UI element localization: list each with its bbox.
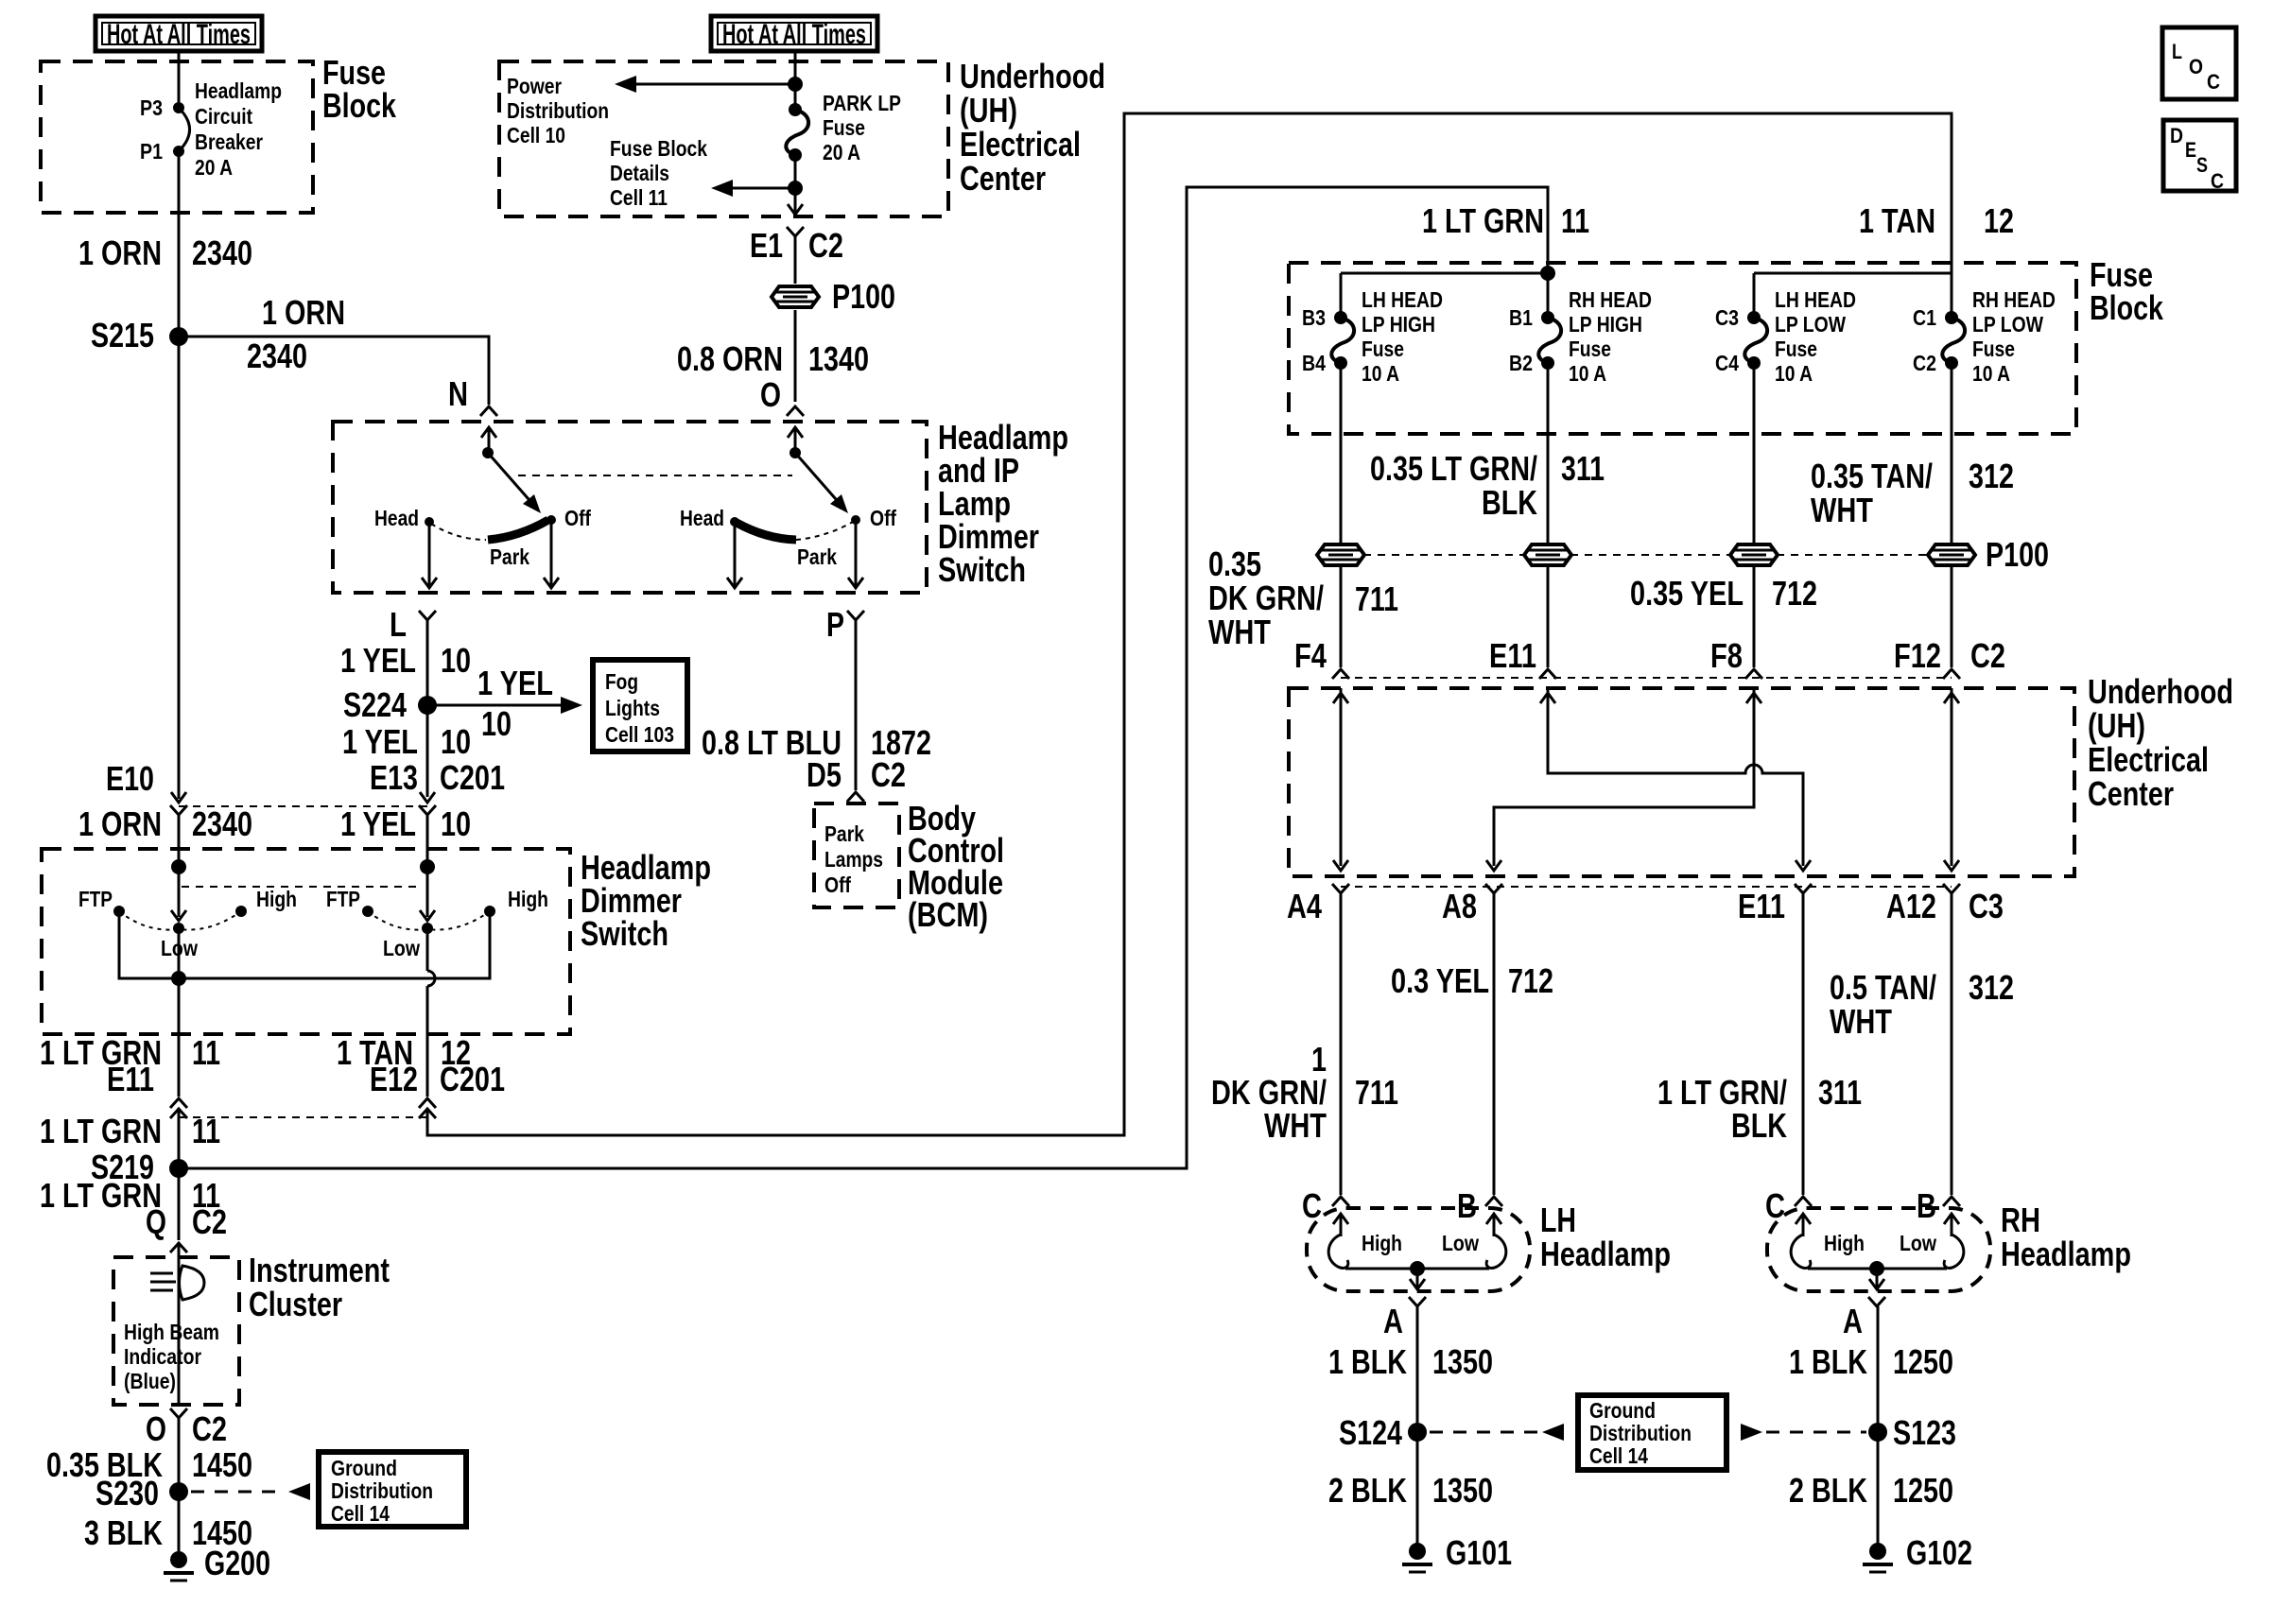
ground distribution reference box (right) <box>1578 1395 1726 1470</box>
svg-text:B: B <box>1917 1186 1936 1225</box>
svg-text:Cell 10: Cell 10 <box>507 123 565 147</box>
svg-text:20 A: 20 A <box>195 155 233 180</box>
svg-text:10: 10 <box>441 804 471 843</box>
svg-text:0.35 TAN/: 0.35 TAN/ <box>1811 457 1933 495</box>
wire down to B1 <box>1547 273 1550 318</box>
junction dot at fuse block details branch <box>788 181 803 196</box>
dimmer pole 2 terminal Low <box>422 923 433 934</box>
splice S219 <box>169 1159 188 1178</box>
tee wire to LH HEAD LP LOW fuse <box>1754 272 1952 275</box>
svg-text:1 LT GRN: 1 LT GRN <box>1422 201 1544 240</box>
svg-text:Cell 11: Cell 11 <box>610 185 668 210</box>
wire 1 YEL 10 from S224 to E13 <box>426 705 429 797</box>
svg-text:WHT: WHT <box>1830 1002 1892 1041</box>
svg-text:1 YEL: 1 YEL <box>340 641 416 680</box>
RH headlamp dashed outline <box>1767 1208 1990 1291</box>
svg-text:Circuit: Circuit <box>195 104 252 129</box>
svg-text:2340: 2340 <box>247 337 307 375</box>
svg-text:S123: S123 <box>1893 1413 1956 1452</box>
svg-text:High Beam: High Beam <box>124 1320 219 1344</box>
svg-text:12: 12 <box>1984 201 2014 240</box>
svg-text:1 LT GRN: 1 LT GRN <box>40 1112 162 1150</box>
fog lights reference box <box>593 660 687 752</box>
label Body Control Module (BCM) <box>908 799 1004 934</box>
svg-text:A: A <box>1383 1302 1403 1340</box>
label RH HEAD LP LOW Fuse 10 A <box>1972 287 2056 386</box>
svg-text:E12: E12 <box>370 1060 418 1098</box>
junction dot at power distribution branch <box>788 77 803 92</box>
UH wire E11-in to E11-out with hop over F8 <box>1548 688 1803 866</box>
svg-text:Fuse: Fuse <box>1775 337 1817 361</box>
svg-text:1 YEL: 1 YEL <box>477 664 553 702</box>
label RH HEAD LP HIGH Fuse 10 A <box>1569 287 1652 386</box>
dashed link S124 to ground distribution <box>1430 1431 1539 1434</box>
LOC legend box <box>2162 27 2236 99</box>
wire down to C1 <box>1951 273 1953 318</box>
svg-text:C201: C201 <box>440 758 505 797</box>
arrowhead to S123 side <box>1741 1424 1762 1441</box>
wire 311 from B2 <box>1547 363 1550 667</box>
svg-text:C2: C2 <box>1970 636 2005 675</box>
svg-text:Ground: Ground <box>1589 1398 1656 1423</box>
UH input arrow F4 <box>1333 693 1348 703</box>
fuse RH HEAD LP HIGH 10A <box>1538 318 1561 363</box>
svg-text:Center: Center <box>960 159 1046 198</box>
svg-text:10 A: 10 A <box>1972 361 2010 386</box>
connector pin O fork <box>787 406 804 416</box>
svg-text:O: O <box>146 1409 166 1448</box>
svg-text:0.35: 0.35 <box>1208 544 1261 583</box>
UH input arrow F12 <box>1944 693 1959 703</box>
svg-text:BLK: BLK <box>1731 1106 1787 1145</box>
wire 1 TAN 12 from E12 right and up to fuse block <box>427 113 1952 1135</box>
wire from fuse to fuse block details branch <box>794 155 797 188</box>
wire pole 1 Low output down to E11 <box>178 928 181 1097</box>
svg-text:LH: LH <box>1540 1201 1576 1239</box>
svg-text:L: L <box>390 605 407 644</box>
svg-text:Instrument: Instrument <box>249 1251 390 1289</box>
connector chevron A8 <box>1485 884 1502 893</box>
branch wire to fuse block details <box>728 187 795 190</box>
svg-text:Park: Park <box>824 821 864 846</box>
label 0.8 ORN / 1340 <box>677 339 869 378</box>
svg-text:F8: F8 <box>1710 636 1743 675</box>
switch pole 2 input arrow from O <box>788 427 803 438</box>
wire 2 BLK 1350 from S124 to G101 <box>1416 1432 1419 1551</box>
svg-text:11: 11 <box>1561 201 1589 240</box>
wire 1 YEL from E13 into dimmer switch <box>426 815 429 875</box>
svg-text:E11: E11 <box>1489 636 1536 675</box>
connector chevron E11 out <box>1795 884 1812 893</box>
svg-text:Fog: Fog <box>605 669 638 694</box>
svg-text:LP HIGH: LP HIGH <box>1362 312 1435 337</box>
connector chevron E11 <box>1539 669 1556 679</box>
wire 1 DK GRN/WHT 711 from A4 to LH headlamp C <box>1340 893 1343 1195</box>
wire 0.35 TAN/WHT 312 from C2 <box>1951 363 1953 667</box>
svg-text:LP LOW: LP LOW <box>1775 312 1846 337</box>
switch pole 1 lever arrowhead <box>523 494 541 513</box>
UH wire F8 to A8 <box>1486 688 1754 871</box>
label LH HEAD LP LOW Fuse 10 A <box>1775 287 1856 386</box>
label Q / C2 <box>146 1202 227 1241</box>
dashed link ground distribution to S123 <box>1766 1431 1866 1434</box>
connector D5 fork into BCM <box>847 792 864 802</box>
svg-text:A8: A8 <box>1442 887 1477 925</box>
arrowhead to ground distribution (S124 side) <box>1542 1424 1564 1441</box>
dimmer pole 2 terminal High <box>484 906 495 917</box>
svg-text:1250: 1250 <box>1893 1342 1953 1381</box>
svg-text:C2: C2 <box>808 226 843 265</box>
terminal P3 <box>173 102 184 113</box>
svg-text:Block: Block <box>322 86 397 125</box>
svg-text:Park: Park <box>490 544 529 569</box>
label Headlamp Dimmer Switch <box>581 848 711 953</box>
label 1 DK GRN/ WHT (lower) <box>1211 1040 1327 1145</box>
inline connector P100 on E11 wire <box>1524 544 1571 565</box>
label Underhood (UH) Electrical Center (top) <box>960 57 1105 198</box>
svg-text:Underhood: Underhood <box>2088 672 2233 711</box>
connector E10 double chevron <box>170 792 187 815</box>
dimmer pole 1 terminal High <box>235 906 247 917</box>
connector Q fork into instrument cluster <box>170 1243 187 1253</box>
svg-text:S230: S230 <box>95 1474 159 1512</box>
dashed link S230 to ground distribution <box>191 1491 286 1494</box>
label Fog Lights Cell 103 <box>605 669 674 747</box>
label Headlamp and IP Lamp Dimmer Switch <box>938 418 1068 589</box>
svg-text:Hot At All Times: Hot At All Times <box>722 19 866 50</box>
svg-text:Cell 14: Cell 14 <box>331 1501 390 1526</box>
label 1 TAN / 12 (above E12) <box>337 1033 471 1072</box>
svg-text:Breaker: Breaker <box>195 130 263 154</box>
label 2 BLK / 1350 <box>1328 1471 1493 1510</box>
dimmer pole 1 terminal Low <box>173 923 184 934</box>
svg-text:0.35 YEL: 0.35 YEL <box>1630 574 1744 613</box>
svg-text:3 BLK: 3 BLK <box>84 1513 163 1552</box>
svg-text:P: P <box>826 605 844 644</box>
label Power Distribution Cell 10 <box>507 74 609 147</box>
svg-text:A4: A4 <box>1287 887 1322 925</box>
gang link dashed line between switch poles <box>518 475 792 476</box>
svg-text:LP HIGH: LP HIGH <box>1569 312 1642 337</box>
svg-text:312: 312 <box>1969 457 2014 495</box>
dimmer junction dot (pole 2) <box>420 859 435 874</box>
svg-text:10 A: 10 A <box>1775 361 1813 386</box>
svg-text:WHT: WHT <box>1811 491 1873 529</box>
wire 1 LT GRN/BLK 311 from E11 to RH headlamp C <box>1802 893 1805 1195</box>
svg-text:Lights: Lights <box>605 696 660 720</box>
svg-text:Headlamp: Headlamp <box>1540 1235 1671 1273</box>
RH headlamp common junction dot <box>1869 1261 1884 1276</box>
svg-text:High: High <box>1824 1231 1865 1255</box>
LH headlamp ground output arrow <box>1410 1269 1425 1289</box>
RH headlamp high beam filament input arrow <box>1796 1214 1811 1224</box>
wire 3 BLK 1450 from S230 to G200 <box>178 1492 181 1560</box>
svg-text:311: 311 <box>1561 449 1605 488</box>
svg-text:Q: Q <box>146 1202 166 1241</box>
svg-text:Cell 103: Cell 103 <box>605 722 674 747</box>
svg-text:Low: Low <box>1900 1231 1936 1255</box>
svg-text:B: B <box>1457 1186 1477 1225</box>
junction dot on FTP-High link at pole1 output <box>171 971 186 986</box>
svg-text:C1: C1 <box>1913 305 1936 330</box>
svg-text:0.35 LT GRN/: 0.35 LT GRN/ <box>1370 449 1537 488</box>
arrowhead to fuse block details <box>711 180 733 197</box>
label O / C2 (cluster output) <box>146 1409 227 1448</box>
svg-text:Off: Off <box>824 872 851 897</box>
wire from Hot At All Times into UH electrical center <box>794 51 797 84</box>
svg-text:Head: Head <box>374 506 419 530</box>
connector chevron F8 <box>1745 669 1762 679</box>
svg-text:E11: E11 <box>1738 887 1785 925</box>
connector chevron A12 <box>1943 884 1960 893</box>
svg-text:C: C <box>2211 169 2224 193</box>
junction dot on LT GRN tee <box>1540 266 1555 281</box>
svg-text:Ground: Ground <box>331 1456 397 1480</box>
connector B fork into RH headlamp <box>1943 1197 1960 1206</box>
wire 0.8 ORN 1340 from P100 to O <box>794 310 797 402</box>
svg-text:712: 712 <box>1508 961 1553 1000</box>
switch pole 1 wiper thick arc Park to Off <box>488 520 548 540</box>
svg-text:20 A: 20 A <box>823 140 860 164</box>
dimmer junction dot (pole 1) <box>171 859 186 874</box>
splice S230 <box>169 1482 188 1501</box>
switch pole 2 pivot <box>789 447 801 458</box>
svg-text:Fuse: Fuse <box>1569 337 1611 361</box>
output arrow to E1 <box>788 188 803 215</box>
label 3 BLK / 1450 <box>84 1513 252 1552</box>
switch pole 1 dashed arc Head to Park <box>431 524 486 540</box>
wire into circuit breaker P3 <box>178 62 181 108</box>
label 1 BLK / 1250 <box>1789 1342 1953 1381</box>
body control module dashed box <box>814 803 899 907</box>
label Underhood (UH) Electrical Center (right) <box>2088 672 2233 813</box>
LH headlamp common junction dot <box>1410 1261 1425 1276</box>
svg-text:Headlamp: Headlamp <box>195 78 282 103</box>
switch pole 1 Off output arrow <box>544 520 559 588</box>
svg-text:A: A <box>1843 1302 1863 1340</box>
label 0.35 LT GRN/ BLK <box>1370 449 1537 522</box>
svg-text:P1: P1 <box>140 139 163 164</box>
dimmer pole 1 terminal FTP <box>113 906 125 917</box>
dimmer pole 1 dotted wiper arc <box>119 911 241 930</box>
switch pole 2 lever <box>795 453 842 507</box>
UH input arrow E11 <box>1540 693 1555 703</box>
switch pole 1 terminal Off <box>547 515 556 525</box>
splice S224 <box>418 696 437 715</box>
svg-text:P100: P100 <box>1986 535 2049 574</box>
svg-text:C: C <box>1765 1186 1785 1225</box>
label LH HEAD LP HIGH Fuse 10 A <box>1362 287 1443 386</box>
wire 1 LT GRN from E11 to S219 <box>178 1111 181 1168</box>
switch pole 2 Off output arrow to P <box>848 520 863 588</box>
svg-text:1350: 1350 <box>1432 1471 1493 1510</box>
label E1 / C2 <box>750 226 843 265</box>
svg-text:G200: G200 <box>204 1544 270 1582</box>
svg-text:F12: F12 <box>1894 636 1941 675</box>
svg-text:Off: Off <box>564 506 591 530</box>
svg-text:S224: S224 <box>343 685 407 724</box>
svg-text:Electrical: Electrical <box>960 125 1081 164</box>
svg-text:Hot At All Times: Hot At All Times <box>107 19 251 50</box>
switch pole 1 terminal Head <box>425 517 434 527</box>
svg-text:FTP: FTP <box>78 887 113 911</box>
switch pole 2 Head output arrow <box>727 522 742 588</box>
connector E1 fork <box>787 227 804 236</box>
DESC legend box <box>2163 120 2236 193</box>
svg-text:1250: 1250 <box>1893 1471 1953 1510</box>
svg-text:D5: D5 <box>807 755 842 794</box>
svg-text:C3: C3 <box>1715 305 1739 330</box>
RH headlamp ground output arrow <box>1869 1269 1884 1289</box>
label E13 / C201 <box>370 758 505 797</box>
svg-text:B3: B3 <box>1302 305 1326 330</box>
wire 0.5 TAN/WHT 312 from A12 to RH headlamp B <box>1951 893 1953 1195</box>
svg-text:1 ORN: 1 ORN <box>78 804 162 843</box>
connector pin L fork <box>419 611 436 620</box>
svg-text:311: 311 <box>1818 1073 1862 1112</box>
switch pole 1 pivot <box>482 447 494 458</box>
switch pole 2 wiper thick arc Head to Park <box>737 523 796 540</box>
svg-text:E1: E1 <box>750 226 783 265</box>
splice S215 <box>169 327 188 346</box>
svg-text:L: L <box>2172 40 2182 63</box>
LH headlamp high beam filament <box>1328 1235 1348 1268</box>
UH wire F4 to A4 <box>1333 688 1348 871</box>
svg-text:F4: F4 <box>1294 636 1327 675</box>
svg-text:Fuse Block: Fuse Block <box>610 136 707 161</box>
switch pole 1 lever <box>488 453 535 507</box>
svg-text:10: 10 <box>441 641 471 680</box>
RH headlamp low beam filament <box>1944 1235 1964 1268</box>
svg-text:(BCM): (BCM) <box>908 895 988 934</box>
svg-text:Switch: Switch <box>581 914 668 953</box>
connector C201 dashed line between E11 and E12 <box>179 1116 427 1118</box>
wire 1 BLK 1350 from LH headlamp A to S124 <box>1416 1306 1419 1432</box>
label 1 ORN / 2340 (lower) <box>78 804 252 843</box>
svg-text:Switch: Switch <box>938 550 1026 589</box>
svg-text:S215: S215 <box>91 316 154 354</box>
LH headlamp low beam filament input arrow <box>1486 1214 1501 1224</box>
svg-text:Low: Low <box>383 936 420 960</box>
label 1 LT GRN / 11 (above S219) <box>40 1112 220 1150</box>
svg-text:BLK: BLK <box>1482 483 1537 522</box>
connector C100 dashed line between E10 and E13 <box>179 805 427 807</box>
svg-text:G101: G101 <box>1446 1533 1512 1572</box>
svg-text:WHT: WHT <box>1264 1106 1327 1145</box>
wire 1 YEL 10 from L to S224 <box>426 620 429 705</box>
high beam indicator lamp icon <box>150 1266 204 1300</box>
wire down to B3 <box>1340 273 1343 318</box>
label Ground Distribution Cell 14 (right) <box>1589 1398 1692 1468</box>
fuse LH HEAD LP LOW 10A <box>1744 318 1767 363</box>
svg-text:1 BLK: 1 BLK <box>1789 1342 1867 1381</box>
fuse PARK LP 20A <box>786 110 808 155</box>
label 1 YEL / 10 (lower) <box>340 804 471 843</box>
dimmer pole 2 arrow to Low <box>420 867 435 921</box>
label D5 / C2 <box>807 755 906 794</box>
svg-text:0.5 TAN/: 0.5 TAN/ <box>1830 968 1936 1007</box>
label Headlamp Circuit Breaker 20 A <box>195 78 282 180</box>
svg-text:E13: E13 <box>370 758 418 797</box>
svg-text:E11: E11 <box>107 1060 154 1098</box>
fuse block (right) dashed box <box>1289 263 2076 434</box>
branch wire to power distribution <box>632 83 795 86</box>
wire pole 2 Low output down to E12 <box>426 928 429 971</box>
underhood electrical center dashed box (top) <box>499 61 948 216</box>
label RH Headlamp <box>2001 1201 2131 1273</box>
inline connector P100 on F4 wire <box>1317 544 1364 565</box>
pole 2 wire hop over FTP-High link <box>427 971 435 986</box>
dimmer pole 2 dotted wiper arc <box>368 911 490 930</box>
fuse RH HEAD LP LOW 10A <box>1942 318 1965 363</box>
svg-text:Off: Off <box>870 506 896 530</box>
svg-text:Fuse: Fuse <box>823 115 865 140</box>
label F12 / C2 <box>1894 636 2005 675</box>
svg-text:1 YEL: 1 YEL <box>342 722 418 761</box>
label 1 ORN / 2340 (upper) <box>78 233 252 272</box>
svg-text:Details: Details <box>610 161 669 185</box>
wire 0.8 ORN from E1 to P100 <box>794 236 797 284</box>
svg-text:10 A: 10 A <box>1362 361 1399 386</box>
label 0.5 TAN/ WHT (lower) <box>1830 968 1936 1041</box>
label High Beam Indicator (Blue) <box>124 1320 219 1393</box>
svg-text:0.3 YEL: 0.3 YEL <box>1391 961 1489 1000</box>
power feed label box 'Hot At All Times' (left) <box>95 16 262 51</box>
wire 1 LT GRN 11 from S219 right and up to fuse block <box>179 187 1548 1168</box>
wire from Hot At All Times into Fuse Block <box>178 51 181 62</box>
branch wire 1 YEL 10 to fog lights arrow <box>427 704 564 707</box>
ground distribution reference box (left) <box>319 1452 466 1527</box>
label 1 LT GRN / 11 (above E11) <box>40 1033 220 1072</box>
svg-text:RH: RH <box>2001 1201 2040 1239</box>
svg-text:P100: P100 <box>832 277 895 316</box>
wire 0.35 BLK 1450 from cluster to S230 <box>178 1418 181 1492</box>
svg-text:11: 11 <box>192 1033 220 1072</box>
svg-text:711: 711 <box>1355 579 1398 618</box>
svg-text:(Blue): (Blue) <box>124 1369 176 1393</box>
connector chevron A4 <box>1332 884 1349 893</box>
switch pole 1 Head output arrow to L <box>422 522 437 588</box>
dimmer pole 2 terminal FTP <box>362 906 373 917</box>
connector row A4-A12 dashed line <box>1341 886 1952 888</box>
LH headlamp dashed outline <box>1307 1208 1530 1291</box>
wire 2 BLK 1250 from S123 to G102 <box>1877 1432 1880 1551</box>
terminal P1 <box>173 146 184 157</box>
svg-text:1 LT GRN: 1 LT GRN <box>40 1176 162 1215</box>
label Fuse Block (right) <box>2090 255 2164 327</box>
svg-text:LH HEAD: LH HEAD <box>1362 287 1443 312</box>
connector pin P fork <box>847 611 864 620</box>
svg-text:High: High <box>1362 1231 1402 1255</box>
svg-text:(UH): (UH) <box>960 91 1017 130</box>
svg-text:Center: Center <box>2088 774 2174 813</box>
svg-text:High: High <box>508 887 548 911</box>
label 1 LT GRN / 11 (above Q) <box>40 1176 220 1215</box>
wire through high beam indicator <box>178 1267 181 1405</box>
label E12 / C201 <box>370 1060 505 1098</box>
svg-text:FTP: FTP <box>326 887 360 911</box>
svg-text:2340: 2340 <box>192 233 252 272</box>
label Fuse Block Details Cell 11 <box>610 136 707 210</box>
svg-text:O: O <box>760 375 781 414</box>
svg-text:A12: A12 <box>1886 887 1936 925</box>
svg-text:C201: C201 <box>440 1060 505 1098</box>
svg-text:Fuse: Fuse <box>1972 337 2015 361</box>
svg-text:2 BLK: 2 BLK <box>1328 1471 1407 1510</box>
inline connector P100 on F8 wire <box>1730 544 1778 565</box>
connector E13 double chevron <box>419 792 436 815</box>
svg-text:C2: C2 <box>192 1202 227 1241</box>
